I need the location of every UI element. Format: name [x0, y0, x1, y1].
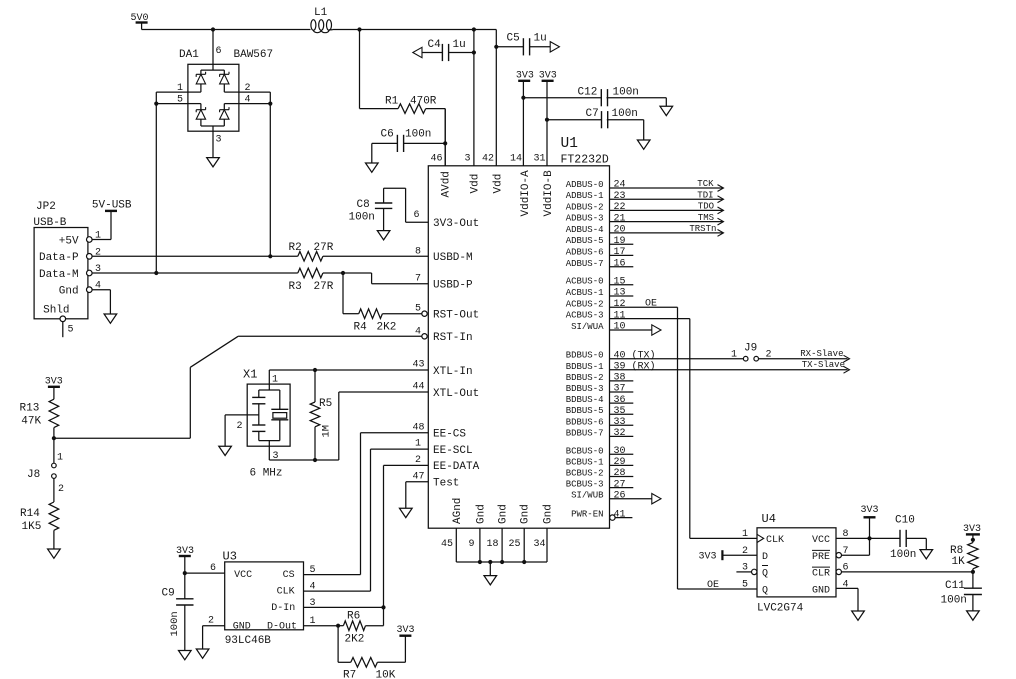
svg-text:6: 6 [413, 210, 419, 221]
svg-text:100n: 100n [169, 611, 181, 636]
X1 crystal element [279, 390, 281, 409]
svg-text:18: 18 [487, 539, 499, 550]
svg-text:D-Out: D-Out [267, 621, 297, 632]
node junction Data-M/DA1 [154, 271, 158, 275]
wire Data-P [92, 255, 298, 257]
svg-text:37: 37 [614, 384, 626, 395]
node junction rail/R1 branch [357, 27, 361, 31]
svg-text:10: 10 [614, 322, 626, 333]
wire R3 to USBD-P [323, 272, 372, 274]
svg-text:45: 45 [441, 539, 453, 550]
node junction C7/3V3B [545, 118, 549, 122]
svg-text:4: 4 [415, 326, 421, 337]
wire EE-DATA [384, 464, 429, 466]
svg-text:J9: J9 [744, 343, 757, 355]
ground symbol (C7) [637, 140, 650, 149]
wire Test to ground [406, 481, 429, 483]
svg-text:FT2232D: FT2232D [561, 154, 609, 167]
svg-text:ADBUS-3: ADBUS-3 [566, 214, 604, 224]
svg-text:2: 2 [237, 421, 243, 432]
svg-text:100n: 100n [890, 549, 916, 561]
svg-text:RST-In: RST-In [433, 332, 473, 344]
svg-text:U4: U4 [762, 512, 776, 526]
svg-text:TCK: TCK [697, 179, 714, 189]
svg-text:R7: R7 [343, 670, 356, 679]
ground symbol (C11) [967, 611, 980, 620]
DA1 diode bottom-left [200, 104, 202, 110]
svg-text:XTL-In: XTL-In [433, 366, 473, 378]
ground symbol (Test) [400, 508, 413, 517]
svg-text:USBD-M: USBD-M [433, 252, 473, 264]
svg-text:33: 33 [614, 417, 626, 428]
svg-text:29: 29 [614, 457, 626, 468]
svg-text:3V3-Out: 3V3-Out [433, 218, 479, 230]
svg-text:27: 27 [614, 479, 626, 490]
svg-text:C4: C4 [428, 39, 442, 51]
svg-text:C5: C5 [507, 33, 520, 45]
ground symbol (C8) [377, 231, 390, 240]
node junctions ground bus [478, 560, 482, 564]
ground symbol (U4) [852, 611, 865, 620]
node junction D-In/R6 [381, 605, 385, 609]
node junction pin2/pin4 [268, 102, 272, 106]
svg-text:47K: 47K [21, 416, 41, 428]
svg-text:LVC2G74: LVC2G74 [757, 603, 804, 615]
svg-text:17: 17 [614, 247, 626, 258]
svg-text:6 MHz: 6 MHz [250, 468, 283, 480]
svg-text:93LC46B: 93LC46B [225, 635, 272, 647]
wire Vdd pin3 drop [473, 30, 475, 166]
ground symbol (C10) [920, 550, 933, 559]
svg-text:GND: GND [233, 621, 251, 632]
svg-text:C9: C9 [162, 588, 175, 600]
wire J9 to RX-Slave [759, 358, 848, 360]
node junction C4/Vdd [472, 50, 476, 54]
svg-text:GND: GND [812, 585, 830, 596]
svg-text:35: 35 [614, 406, 626, 417]
svg-text:CS: CS [283, 570, 295, 581]
svg-text:XTL-Out: XTL-Out [433, 388, 479, 400]
svg-text:14: 14 [510, 154, 522, 165]
svg-text:39 (RX): 39 (RX) [614, 361, 656, 373]
ground symbol (DA1) [207, 158, 220, 167]
ground symbol (C6) [366, 163, 379, 172]
svg-text:C6: C6 [381, 129, 394, 141]
svg-text:BDBUS-7: BDBUS-7 [566, 428, 604, 438]
svg-text:BDBUS-4: BDBUS-4 [566, 395, 604, 405]
wire DA1 pin4 down to Data-P [269, 104, 271, 257]
svg-text:R3: R3 [289, 281, 302, 293]
svg-text:1: 1 [415, 439, 421, 450]
svg-text:38: 38 [614, 373, 626, 384]
svg-text:6: 6 [210, 563, 216, 574]
svg-text:2: 2 [208, 616, 214, 627]
svg-text:3V3: 3V3 [699, 552, 717, 563]
svg-text:40 (TX): 40 (TX) [614, 349, 656, 361]
svg-text:OE: OE [645, 298, 657, 309]
svg-text:L1: L1 [314, 7, 328, 19]
svg-text:BDBUS-5: BDBUS-5 [566, 406, 604, 416]
svg-text:R4: R4 [354, 322, 368, 334]
wire ACBUS-3 vertical [689, 319, 691, 539]
wire rail to Vdd pins [360, 29, 474, 31]
svg-text:X1: X1 [243, 368, 257, 382]
svg-text:C12: C12 [578, 87, 598, 99]
node junction D-Out/R6/R7 [336, 624, 340, 628]
svg-text:BDBUS-0: BDBUS-0 [566, 351, 604, 361]
wire 5V0 rail to DA1 [142, 29, 213, 31]
svg-text:2: 2 [415, 455, 421, 466]
svg-text:BCBUS-3: BCBUS-3 [566, 480, 604, 490]
svg-text:1: 1 [731, 350, 737, 361]
svg-text:TMS: TMS [698, 213, 714, 223]
svg-text:22: 22 [614, 202, 626, 213]
svg-text:D-In: D-In [271, 603, 295, 614]
svg-text:TDO: TDO [698, 202, 714, 212]
node junction rail/DA1 pin6 [211, 27, 215, 31]
wire RST-In run [54, 437, 190, 439]
svg-text:24: 24 [614, 180, 626, 191]
ground symbol (U1) [484, 576, 497, 585]
svg-text:BDBUS-6: BDBUS-6 [566, 417, 604, 427]
svg-text:1: 1 [57, 453, 63, 464]
svg-text:R13: R13 [20, 403, 40, 415]
wire 3V3 to pin 31 [546, 81, 548, 166]
svg-text:VCC: VCC [234, 570, 252, 581]
svg-text:BDBUS-3: BDBUS-3 [566, 384, 604, 394]
wire EE-SCL [371, 448, 429, 450]
svg-text:RST-Out: RST-Out [433, 310, 479, 322]
ground symbol (U3) [196, 649, 209, 658]
svg-text:5: 5 [68, 325, 74, 336]
ground symbol (C12) [660, 106, 673, 115]
svg-text:32: 32 [614, 428, 626, 439]
svg-text:100n: 100n [612, 108, 638, 120]
svg-text:C8: C8 [357, 199, 370, 211]
svg-text:D: D [762, 552, 768, 563]
wire XTL-Out riser [338, 392, 340, 460]
svg-text:42: 42 [482, 154, 494, 165]
svg-text:2K2: 2K2 [377, 322, 397, 334]
node junction C5/Vdd42 [494, 45, 498, 49]
svg-text:Gnd: Gnd [543, 504, 555, 524]
svg-text:23: 23 [614, 191, 626, 202]
ground symbol (JP2) [104, 314, 117, 323]
svg-text:ADBUS-7: ADBUS-7 [566, 259, 604, 269]
svg-text:44: 44 [412, 382, 424, 393]
svg-text:JP2: JP2 [36, 201, 56, 213]
svg-text:30: 30 [614, 446, 626, 457]
svg-text:1u: 1u [534, 33, 547, 45]
svg-text:EE-CS: EE-CS [433, 429, 466, 441]
svg-text:2: 2 [58, 484, 64, 495]
svg-text:1u: 1u [453, 39, 466, 51]
wire OE vertical [677, 307, 679, 589]
svg-text:TX-Slave: TX-Slave [802, 360, 845, 370]
svg-text:Vdd: Vdd [469, 174, 481, 194]
wire R2 to USBD-M [323, 255, 428, 257]
svg-text:TDI: TDI [697, 190, 713, 200]
svg-text:5: 5 [415, 304, 421, 315]
svg-text:R14: R14 [20, 508, 40, 520]
svg-text:43: 43 [412, 360, 424, 371]
svg-text:Gnd: Gnd [475, 504, 487, 524]
wire EE-CS [361, 432, 429, 434]
svg-text:Gnd: Gnd [520, 504, 532, 524]
DA1 diode top-right [223, 70, 225, 74]
svg-text:DA1: DA1 [179, 49, 199, 61]
svg-text:CLK: CLK [766, 535, 784, 546]
svg-text:1K: 1K [952, 556, 966, 568]
svg-text:ACBUS-3: ACBUS-3 [566, 311, 604, 321]
svg-text:6: 6 [216, 46, 222, 57]
svg-text:20: 20 [614, 225, 626, 236]
DA1 diode bottom-right [223, 104, 225, 110]
svg-text:ADBUS-1: ADBUS-1 [566, 191, 604, 201]
svg-text:3: 3 [216, 135, 222, 146]
svg-text:Gnd: Gnd [498, 504, 510, 524]
svg-text:SI/WUB: SI/WUB [571, 491, 604, 501]
node junction R3/R4 [341, 271, 345, 275]
svg-text:RX-Slave: RX-Slave [800, 349, 843, 359]
svg-text:SI/WUA: SI/WUA [571, 322, 604, 332]
wire XTL-In [269, 369, 428, 371]
svg-text:9: 9 [469, 539, 475, 550]
node junction 3V3/R8 [971, 538, 975, 542]
svg-text:AGnd: AGnd [452, 498, 464, 524]
node junction Data-P/DA1 [268, 254, 272, 258]
ground symbol (X1) [219, 446, 232, 455]
wire Data-M [92, 272, 298, 274]
svg-text:100n: 100n [613, 87, 639, 99]
wire L1 to node [333, 29, 360, 31]
svg-text:ACBUS-0: ACBUS-0 [566, 277, 604, 287]
svg-text:47: 47 [412, 471, 424, 482]
svg-text:Gnd: Gnd [59, 286, 79, 298]
DA1 diode top-left [200, 70, 202, 74]
svg-text:VddIO-B: VddIO-B [543, 170, 555, 217]
U4 clock wedge [757, 534, 764, 542]
svg-text:15: 15 [614, 276, 626, 287]
svg-text:ADBUS-6: ADBUS-6 [566, 247, 604, 257]
svg-text:48: 48 [412, 422, 424, 433]
svg-text:31: 31 [534, 154, 546, 165]
svg-text:C11: C11 [945, 580, 965, 592]
svg-text:J8: J8 [27, 469, 40, 481]
ground symbol (R14) [48, 549, 61, 558]
svg-text:470R: 470R [410, 96, 437, 108]
node junction R8/C11/CLR [971, 570, 975, 574]
svg-text:Q: Q [762, 585, 768, 596]
node junction R13/RST-In wire [52, 436, 56, 440]
svg-text:Test: Test [433, 478, 459, 490]
ground symbol (C9) [179, 651, 192, 660]
svg-text:U1: U1 [561, 136, 578, 152]
svg-text:36: 36 [614, 395, 626, 406]
svg-text:100n: 100n [349, 212, 375, 224]
svg-text:ADBUS-0: ADBUS-0 [566, 180, 604, 190]
svg-text:BCBUS-2: BCBUS-2 [566, 469, 604, 479]
wire DA1 pin5 down to Data-M [155, 104, 157, 273]
svg-text:ADBUS-4: ADBUS-4 [566, 225, 604, 235]
node junction C12/3V3A [521, 96, 525, 100]
svg-text:12: 12 [614, 299, 626, 310]
svg-text:ADBUS-2: ADBUS-2 [566, 202, 604, 212]
svg-text:C7: C7 [586, 108, 599, 120]
svg-text:25: 25 [509, 539, 521, 550]
svg-text:ACBUS-2: ACBUS-2 [566, 299, 604, 309]
svg-text:CLR: CLR [812, 569, 830, 580]
svg-text:3: 3 [465, 154, 471, 165]
svg-text:Data-P: Data-P [39, 252, 79, 264]
svg-text:BCBUS-1: BCBUS-1 [566, 457, 604, 467]
svg-text:R6: R6 [347, 611, 360, 623]
svg-text:46: 46 [431, 154, 443, 165]
node junction pin1/pin5 [154, 102, 158, 106]
svg-text:Q: Q [762, 569, 768, 580]
svg-text:26: 26 [614, 490, 626, 501]
svg-text:R1: R1 [385, 96, 399, 108]
svg-text:Data-M: Data-M [39, 269, 79, 281]
svg-text:28: 28 [614, 468, 626, 479]
svg-text:ADBUS-5: ADBUS-5 [566, 236, 604, 246]
svg-text:EE-DATA: EE-DATA [433, 461, 480, 473]
node junction R1/C6/pin46 [443, 141, 447, 145]
svg-text:C10: C10 [895, 515, 915, 527]
wire ground bus [456, 561, 547, 563]
svg-text:BDBUS-1: BDBUS-1 [566, 362, 604, 372]
svg-text:+5V: +5V [59, 235, 79, 247]
X1 internal capacitor upper [258, 390, 260, 397]
node junction 3V3/C9 [183, 571, 187, 575]
svg-text:8: 8 [415, 246, 421, 257]
svg-text:10K: 10K [376, 670, 396, 679]
svg-text:100n: 100n [941, 595, 967, 607]
svg-text:PWR-EN: PWR-EN [571, 510, 603, 520]
wire X1 bottom [269, 459, 339, 461]
svg-text:USBD-P: USBD-P [433, 280, 473, 292]
wire Vdd pin42 drop [495, 30, 497, 166]
svg-text:34: 34 [534, 539, 546, 550]
wire 3V3 to pin 14 [522, 81, 524, 166]
svg-text:1K5: 1K5 [22, 521, 42, 533]
svg-text:21: 21 [614, 213, 626, 224]
svg-text:BCBUS-0: BCBUS-0 [566, 446, 604, 456]
svg-text:3V3: 3V3 [397, 625, 415, 636]
svg-text:VddIO-A: VddIO-A [520, 170, 532, 217]
svg-text:VCC: VCC [812, 535, 830, 546]
svg-text:7: 7 [415, 274, 421, 285]
svg-text:1: 1 [272, 375, 278, 386]
svg-text:BAW567: BAW567 [234, 49, 274, 61]
svg-text:PRE: PRE [812, 552, 830, 563]
node junction VCC/PRE/C10 [867, 536, 871, 540]
X1 internal capacitor lower [252, 424, 265, 426]
svg-text:BDBUS-2: BDBUS-2 [566, 373, 604, 383]
svg-text:TRSTn: TRSTn [689, 224, 716, 234]
wire rail DA1 to L1 [213, 29, 308, 31]
DA1 pin 3 [201, 125, 224, 127]
svg-text:Shld: Shld [43, 305, 69, 317]
svg-text:AVdd: AVdd [441, 171, 453, 197]
svg-text:27R: 27R [314, 281, 334, 293]
svg-text:3V3: 3V3 [861, 505, 879, 516]
svg-text:13: 13 [614, 288, 626, 299]
svg-text:2K2: 2K2 [345, 634, 365, 646]
svg-text:16: 16 [614, 259, 626, 270]
svg-text:CLK: CLK [277, 587, 295, 598]
svg-text:19: 19 [614, 236, 626, 247]
svg-text:11: 11 [614, 310, 626, 321]
svg-text:1M: 1M [321, 425, 333, 438]
svg-text:3V3: 3V3 [963, 524, 981, 535]
svg-text:100n: 100n [405, 129, 431, 141]
svg-text:ACBUS-1: ACBUS-1 [566, 288, 604, 298]
svg-text:Vdd: Vdd [492, 174, 504, 194]
svg-text:EE-SCL: EE-SCL [433, 445, 473, 457]
